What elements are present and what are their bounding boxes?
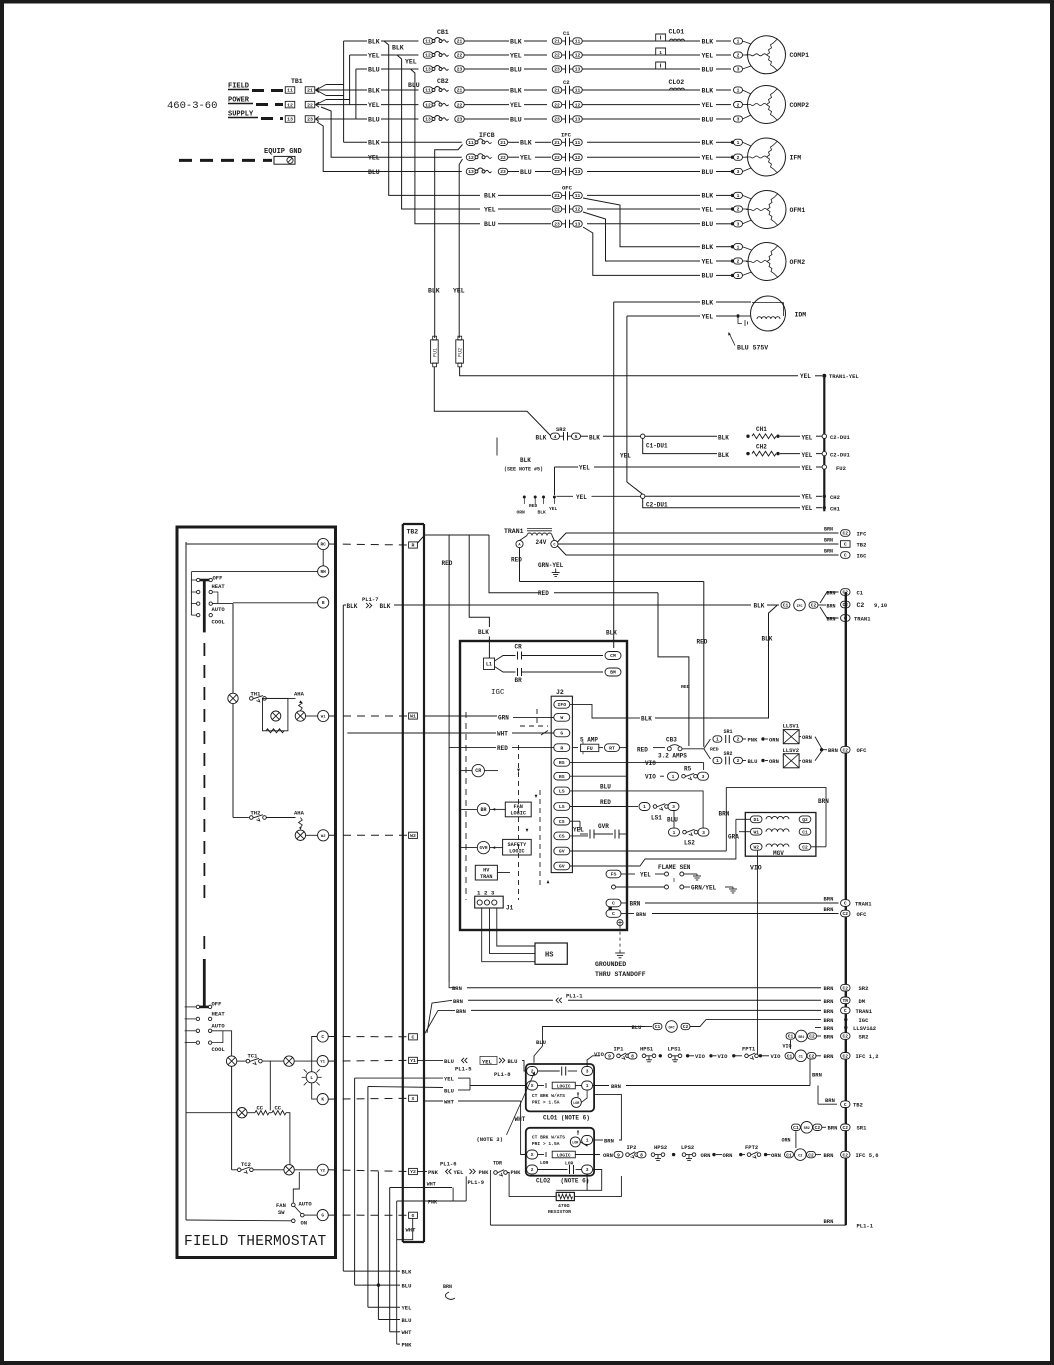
svg-text:YEL: YEL <box>640 871 651 878</box>
svg-text:C1: C1 <box>788 1034 794 1040</box>
svg-text:SR2: SR2 <box>724 751 733 757</box>
svg-text:BLU: BLU <box>368 169 380 176</box>
svg-text:23: 23 <box>554 169 560 175</box>
svg-text:PNK: PNK <box>428 1200 437 1206</box>
svg-text:BLK: BLK <box>368 140 380 147</box>
svg-text:CLO1 (NOTE 6): CLO1 (NOTE 6) <box>543 1115 590 1122</box>
svg-text:IFC 5,6: IFC 5,6 <box>856 1152 879 1159</box>
svg-text:12: 12 <box>575 155 581 161</box>
svg-text:SR2: SR2 <box>556 426 566 433</box>
svg-text:LS: LS <box>559 789 565 795</box>
svg-text:FU2: FU2 <box>836 465 846 472</box>
svg-text:2: 2 <box>737 737 740 743</box>
svg-text:SR2: SR2 <box>859 985 869 992</box>
svg-text:GROUNDED: GROUNDED <box>595 961 626 968</box>
svg-text:C1: C1 <box>793 1125 799 1131</box>
svg-text:23: 23 <box>554 222 560 228</box>
svg-text:C1: C1 <box>786 1152 792 1158</box>
svg-text:CH2: CH2 <box>756 444 767 451</box>
svg-text:X: X <box>531 1152 534 1158</box>
svg-text:13: 13 <box>425 117 431 123</box>
wire tap YEL to junction <box>557 495 574 497</box>
svg-text:C: C <box>412 1035 415 1041</box>
svg-text:BRN: BRN <box>825 1097 835 1104</box>
svg-text:Y1: Y1 <box>410 1058 416 1064</box>
svg-text:C: C <box>612 901 615 907</box>
svg-text:X: X <box>531 1083 534 1089</box>
svg-text:C2: C2 <box>843 747 849 753</box>
svg-text:W: W <box>560 715 563 721</box>
wire LLSV1&2 row <box>815 1027 821 1029</box>
svg-text:C: C <box>844 542 847 548</box>
svg-text:1 2 3: 1 2 3 <box>477 890 495 897</box>
mode switch lower <box>203 959 206 1007</box>
svg-text:FAN: FAN <box>276 1202 286 1209</box>
svg-text:X: X <box>412 1096 415 1102</box>
svg-text:WHT: WHT <box>497 730 508 737</box>
svg-text:YEL: YEL <box>454 1169 465 1176</box>
wire LS row806 RED to LS1 <box>570 806 627 808</box>
field supply dashed leads L3 <box>228 117 258 119</box>
internal dashed logic lines <box>518 745 520 900</box>
svg-text:RED: RED <box>442 560 453 567</box>
svg-text:WHT: WHT <box>406 1227 417 1234</box>
svg-text:BRN: BRN <box>824 549 833 555</box>
svg-text:(NOTE 6): (NOTE 6) <box>561 1178 590 1185</box>
coil W2 and terminal <box>295 830 305 840</box>
svg-text:C2: C2 <box>811 603 817 609</box>
svg-text:13: 13 <box>575 169 581 175</box>
svg-text:BLK: BLK <box>702 244 714 251</box>
svg-text:BLK: BLK <box>702 38 714 45</box>
wire C1 to COMP1 rows <box>583 40 701 42</box>
svg-text:RED: RED <box>600 799 611 806</box>
wire row1 BLK to CB1 <box>344 40 367 42</box>
svg-text:C: C <box>321 1035 324 1040</box>
coil TC1 left <box>226 1056 236 1066</box>
motor terminals OFM2 <box>734 244 743 250</box>
CLO1 LOR coil <box>571 1097 581 1107</box>
wire fan auto riser <box>293 1172 299 1203</box>
wire BLK IFO riser <box>627 717 640 719</box>
svg-text:OFF: OFF <box>213 574 223 581</box>
svg-text:YEL: YEL <box>576 494 587 501</box>
svg-text:BLK: BLK <box>718 452 729 459</box>
svg-text:9: 9 <box>617 1152 620 1158</box>
svg-text:HPS1: HPS1 <box>640 1046 654 1053</box>
svg-text:AUTO: AUTO <box>212 1022 226 1029</box>
CLO2 logic box <box>552 1151 575 1158</box>
svg-text:BRN: BRN <box>824 1152 834 1159</box>
svg-text:CH1: CH1 <box>830 505 841 512</box>
wire FU1 to SR2 contact <box>434 367 551 436</box>
svg-text:RS: RS <box>559 774 565 780</box>
svg-text:TRAN1: TRAN1 <box>854 615 871 622</box>
svg-text:13: 13 <box>468 169 474 175</box>
svg-text:11: 11 <box>425 88 431 94</box>
svg-text:RED: RED <box>538 590 549 597</box>
svg-text:BRN: BRN <box>828 1125 838 1132</box>
svg-text:C2: C2 <box>843 911 849 917</box>
svg-text:BRN: BRN <box>827 591 836 597</box>
svg-text:YEL: YEL <box>510 102 522 109</box>
wire CLO2-1 BRN to CLO1 right <box>593 1139 603 1141</box>
svg-text:BRN: BRN <box>812 1072 822 1079</box>
svg-text:HV: HV <box>483 867 490 873</box>
svg-text:3: 3 <box>702 774 705 780</box>
wire BRN row DM <box>427 1000 452 1033</box>
thermostat circle RH <box>318 566 329 577</box>
svg-text:FPT1: FPT1 <box>742 1046 756 1053</box>
svg-text:24V: 24V <box>536 539 547 546</box>
wire RED into R <box>449 747 496 749</box>
svg-text:21: 21 <box>554 193 560 199</box>
svg-text:SR2: SR2 <box>859 1033 869 1040</box>
svg-text:FLAME SEN: FLAME SEN <box>658 864 691 871</box>
terminal strip TB2 box <box>402 524 404 1242</box>
svg-text:CB3: CB3 <box>666 737 677 744</box>
wire BRN row TRAN1 <box>425 1010 456 1034</box>
svg-text:C2-DU1: C2-DU1 <box>830 434 851 441</box>
svg-text:YEL: YEL <box>802 505 813 512</box>
svg-text:BLK: BLK <box>754 603 765 610</box>
wire TRAN1-C fan to right terminals <box>558 533 839 542</box>
svg-text:SW: SW <box>278 1209 285 1216</box>
CLO2 terminal 3 <box>582 1165 593 1174</box>
wire VIO drop from W2 <box>757 850 759 1056</box>
svg-text:TR: TR <box>843 998 849 1004</box>
relay CR coil <box>472 764 484 776</box>
svg-text:TC1: TC1 <box>248 1052 259 1059</box>
svg-text:LOGIC: LOGIC <box>557 1083 571 1089</box>
svg-text:OFC: OFC <box>857 911 868 918</box>
svg-text:13: 13 <box>575 222 581 228</box>
svg-text:BLK: BLK <box>478 629 489 636</box>
motor OFM1 <box>748 191 786 229</box>
wire GV row851 loop to MGV C2 <box>570 850 627 852</box>
node OFC junction <box>820 748 823 751</box>
svg-text:YEL: YEL <box>573 827 584 834</box>
svg-text:PL1-9: PL1-9 <box>468 1179 485 1186</box>
svg-text:C2: C2 <box>843 1125 849 1131</box>
svg-text:2: 2 <box>737 207 740 213</box>
svg-text:YEL: YEL <box>510 52 522 59</box>
svg-text:9: 9 <box>608 1054 611 1060</box>
field thermostat box <box>177 527 336 1258</box>
wire TC1 junction drop <box>269 1061 271 1110</box>
svg-text:13: 13 <box>575 67 581 73</box>
svg-text:22: 22 <box>457 102 463 108</box>
wire CS row821 <box>570 820 580 822</box>
wire to CH1 <box>645 435 717 437</box>
svg-text:G: G <box>560 731 563 737</box>
motor IFM <box>748 138 786 176</box>
svg-text:21: 21 <box>457 39 463 45</box>
svg-text:TDR: TDR <box>493 1161 502 1167</box>
svg-text:C1: C1 <box>857 589 864 596</box>
svg-text:C2: C2 <box>798 1154 802 1158</box>
wire vertical WHT <box>389 1188 391 1332</box>
svg-text:ORN: ORN <box>769 758 779 765</box>
svg-text:3: 3 <box>737 117 740 123</box>
svg-text:5: 5 <box>575 434 578 440</box>
compressor lockout CLO2 box <box>526 1128 594 1176</box>
svg-text:1: 1 <box>586 1083 589 1089</box>
svg-text:LOR: LOR <box>540 1160 549 1166</box>
TB2 terminal C <box>409 1034 418 1040</box>
svg-text:11: 11 <box>575 88 581 94</box>
svg-text:BLU: BLU <box>510 116 522 123</box>
svg-text:BRN: BRN <box>636 911 646 918</box>
svg-text:MGV: MGV <box>773 850 784 857</box>
thermostat circle K <box>317 1094 328 1105</box>
svg-text:BRN: BRN <box>824 538 833 544</box>
svg-text:C2: C2 <box>809 1034 815 1040</box>
wire TB1-22 vertical YEL <box>349 55 351 105</box>
svg-text:BLU: BLU <box>484 221 496 228</box>
TB2 terminal G <box>409 1212 418 1218</box>
bottom stub BLK <box>343 1270 400 1272</box>
wire LS row791 BLU to LS2 <box>570 790 627 792</box>
svg-text:3: 3 <box>737 273 740 279</box>
svg-text:BRN: BRN <box>604 1137 614 1144</box>
terminal C row903 <box>606 899 621 907</box>
flame sensor row2 GRN/YEL <box>612 885 616 889</box>
wire row7 BLK to IFCB <box>344 141 367 143</box>
svg-text:ORN: ORN <box>782 1138 791 1144</box>
dashed row G to TB2 <box>329 1214 409 1216</box>
svg-text:3.2 AMPS: 3.2 AMPS <box>658 753 687 760</box>
svg-text:COMP1: COMP1 <box>790 52 810 59</box>
svg-text:COOL: COOL <box>212 1046 226 1053</box>
dashed row Y1 to TB2 <box>329 1059 409 1062</box>
svg-text:CR: CR <box>515 644 523 651</box>
terminal TRAN1 row618 <box>841 615 851 622</box>
svg-text:G: G <box>412 1213 415 1219</box>
svg-text:IGC: IGC <box>491 689 505 697</box>
wire LS1-3 to LS2-1 BLU <box>673 811 675 829</box>
svg-text:PNK: PNK <box>748 736 759 743</box>
wire GRN into W <box>424 715 497 717</box>
thermostat inner rail <box>185 542 187 1220</box>
svg-text:IGC: IGC <box>857 552 868 559</box>
wire IFCB outputs to IFC with labels <box>508 141 519 143</box>
coil TH1 left <box>228 693 238 703</box>
svg-text:CM: CM <box>610 653 616 659</box>
svg-text:VIO: VIO <box>645 774 656 781</box>
wire RED row A from TRAN1 <box>519 548 521 582</box>
node TRAN1-YEL <box>822 374 826 378</box>
svg-text:BRN: BRN <box>824 998 834 1005</box>
svg-text:ORN: ORN <box>802 758 812 765</box>
svg-text:RC: RC <box>321 543 327 548</box>
CLO2 LOR coil <box>570 1137 580 1147</box>
wire VIO drop SR1 to C1 <box>790 1040 792 1049</box>
svg-text:BLK: BLK <box>520 140 532 147</box>
wire CB1 outputs to C1 with labels <box>465 40 510 42</box>
svg-text:IFC: IFC <box>796 605 802 609</box>
compressor lockout CLO1 box <box>526 1064 594 1111</box>
svg-text:ORN: ORN <box>771 1152 781 1159</box>
svg-text:3: 3 <box>586 1069 589 1075</box>
svg-text:CT BRK W/ATS: CT BRK W/ATS <box>532 1093 565 1099</box>
wire vertical G WHT return <box>397 1201 413 1240</box>
svg-text:Y1: Y1 <box>320 1061 325 1065</box>
svg-text:CH2: CH2 <box>830 494 840 501</box>
svg-text:FU2: FU2 <box>458 348 464 357</box>
svg-text:ORN: ORN <box>603 1152 613 1159</box>
wire to IFCB phase2 <box>321 107 462 157</box>
svg-text:22: 22 <box>457 53 463 59</box>
svg-text:12: 12 <box>468 155 474 161</box>
svg-text:1: 1 <box>737 193 740 199</box>
svg-text:AHA: AHA <box>294 691 305 698</box>
svg-text:ORN: ORN <box>701 1152 711 1159</box>
svg-text:GRN: GRN <box>498 715 509 722</box>
svg-text:BLU: BLU <box>536 1039 546 1046</box>
svg-text:12: 12 <box>575 53 581 59</box>
svg-text:YEL: YEL <box>702 102 714 109</box>
equip gnd terminal <box>274 156 295 164</box>
svg-text:BRN: BRN <box>630 900 641 907</box>
svg-text:YEL: YEL <box>702 52 714 59</box>
svg-text:LLSV1: LLSV1 <box>783 723 800 730</box>
svg-text:HS: HS <box>545 952 553 960</box>
svg-text:DM: DM <box>859 998 866 1005</box>
wire RED vertical right <box>703 582 705 747</box>
svg-text:22: 22 <box>307 102 313 108</box>
svg-text:C2: C2 <box>802 845 808 851</box>
svg-text:BLU: BLU <box>402 1283 412 1290</box>
svg-text:PNK: PNK <box>428 1169 439 1176</box>
svg-text:YEL: YEL <box>802 465 813 472</box>
svg-text:C: C <box>844 901 847 907</box>
wire TB1-21 vertical bus BLK <box>343 41 345 142</box>
svg-text:BRN: BRN <box>824 985 834 992</box>
svg-text:YEL: YEL <box>453 288 465 295</box>
svg-text:LOGIC: LOGIC <box>509 848 525 854</box>
svg-text:23: 23 <box>500 169 506 175</box>
wire C2 to COMP2 rows <box>583 89 701 91</box>
svg-text:PNK: PNK <box>511 1169 522 1176</box>
svg-text:OFM1: OFM1 <box>790 207 806 214</box>
svg-text:GRA: GRA <box>728 834 739 841</box>
svg-text:LOGIC: LOGIC <box>510 810 526 816</box>
svg-text:PL1-8: PL1-8 <box>494 1071 511 1078</box>
svg-text:22: 22 <box>554 102 560 108</box>
svg-text:C2: C2 <box>843 1034 849 1040</box>
wire resistor left to TDR <box>507 1173 556 1197</box>
svg-text:BR: BR <box>480 807 486 813</box>
wire vertical PNK <box>377 1172 379 1320</box>
svg-text:ORN: ORN <box>769 736 779 743</box>
svg-text:BRN: BRN <box>824 527 833 533</box>
svg-text:VIO: VIO <box>718 1053 729 1060</box>
svg-text:21: 21 <box>307 88 313 94</box>
wire branch to L1 BLK <box>469 535 489 627</box>
svg-text:BLU: BLU <box>667 817 678 824</box>
svg-text:YEL: YEL <box>549 506 558 512</box>
svg-text:460-3-60: 460-3-60 <box>167 100 217 112</box>
svg-text:W1: W1 <box>321 716 326 720</box>
svg-text:YEL: YEL <box>402 1305 413 1312</box>
svg-text:BLU: BLU <box>508 1058 518 1065</box>
chain C1 IFC C2 <box>781 602 790 608</box>
coil W1 and terminal <box>295 711 305 721</box>
svg-text:1: 1 <box>672 774 675 780</box>
wire vertical YEL <box>354 1078 356 1285</box>
svg-text:C: C <box>844 553 847 559</box>
wire IFO out <box>570 704 627 718</box>
svg-text:C2: C2 <box>843 1054 849 1060</box>
svg-text:Q2: Q2 <box>802 817 808 823</box>
svg-text:W1: W1 <box>410 714 416 720</box>
svg-text:RED: RED <box>710 747 719 753</box>
svg-text:C1: C1 <box>799 1056 803 1060</box>
switch LS2 <box>669 828 680 836</box>
bottom stub BLU2 <box>378 1319 400 1321</box>
svg-text:11: 11 <box>287 88 293 94</box>
svg-text:COMP2: COMP2 <box>790 102 810 109</box>
svg-text:HPS2: HPS2 <box>654 1144 667 1151</box>
svg-text:LS1: LS1 <box>651 815 662 822</box>
svg-text:BLK: BLK <box>510 87 522 94</box>
svg-text:BLU: BLU <box>748 758 758 765</box>
wire ORN drop SR2 to C1 <box>795 1131 797 1148</box>
svg-text:CS: CS <box>559 834 565 840</box>
svg-text:BLK: BLK <box>702 140 714 147</box>
svg-text:RED: RED <box>511 557 522 564</box>
svg-text:BLK: BLK <box>392 45 404 52</box>
svg-text:TB1: TB1 <box>291 78 303 85</box>
svg-text:BRN: BRN <box>453 998 463 1005</box>
svg-text:3: 3 <box>702 830 705 836</box>
svg-text:12: 12 <box>575 207 581 213</box>
svg-text:VIO: VIO <box>771 1053 782 1060</box>
svg-text:D1: D1 <box>753 817 759 823</box>
fuse FU1 <box>431 340 439 363</box>
wire FU2 YEL drop <box>459 159 462 338</box>
IDM start cap mark <box>738 318 742 324</box>
svg-text:1: 1 <box>737 244 740 250</box>
svg-text:BLK: BLK <box>641 715 652 722</box>
svg-text:CLO2: CLO2 <box>536 1178 551 1185</box>
svg-text:BRN: BRN <box>452 985 462 992</box>
svg-text:HEAT: HEAT <box>212 583 226 590</box>
svg-text:GVR: GVR <box>480 846 488 851</box>
svg-text:BLK: BLK <box>380 603 391 610</box>
current sensor squares CLO1 <box>656 34 666 41</box>
svg-text:AUTO: AUTO <box>299 1201 313 1208</box>
thermostat circle C <box>317 1031 328 1042</box>
terminal C row913 <box>606 910 621 918</box>
wire hook BLU to OFC row <box>411 69 481 224</box>
block HV TRAN <box>475 865 497 880</box>
CLO2 terminal X <box>527 1150 538 1159</box>
svg-text:BLK: BLK <box>702 299 714 306</box>
junction C1-DU1 <box>641 434 645 438</box>
svg-text:LLSV2: LLSV2 <box>783 747 800 754</box>
svg-text:YEL: YEL <box>368 52 380 59</box>
wire row2 YEL to CB1 <box>350 54 367 56</box>
field supply dashed leads L2 <box>228 103 253 105</box>
svg-text:BRN: BRN <box>824 896 834 903</box>
svg-text:BRN: BRN <box>828 747 838 754</box>
wire CLO1-1 BRN row <box>593 1085 609 1087</box>
wire OFC to OFM1 rows <box>587 194 700 196</box>
svg-text:TRAN1-YEL: TRAN1-YEL <box>829 373 859 380</box>
valve MGV W2-C2 <box>750 843 762 850</box>
